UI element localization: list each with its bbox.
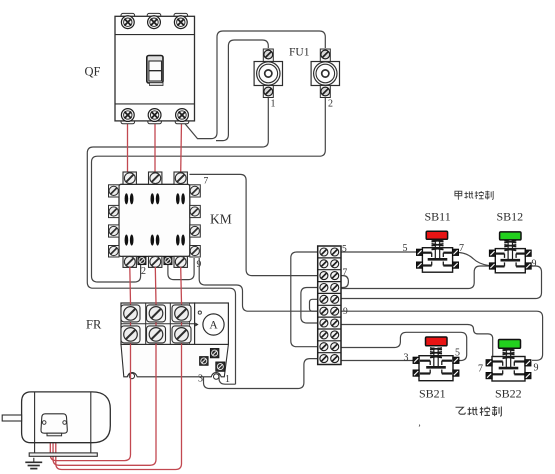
circuit breaker QF [115, 13, 195, 123]
wire net2: FU1-2 bottom to KM coil terminal 2 [92, 92, 326, 282]
wire SB11 terminal 7 to SB12 lower-left [459, 253, 490, 266]
cap of SB11 (stop, red) [426, 231, 447, 239]
wire strip jumper row3-row4 right (net7) [341, 276, 348, 288]
svg-text:3: 3 [404, 353, 409, 364]
wire strip row7 to SB22 terminal 7 (net7) [341, 325, 493, 360]
wire red KM-FR-motor phase1 [50, 267, 130, 461]
wire FR aux 1 stub [219, 371, 236, 384]
wire strip row4 to SB12 lower-left (net7) [341, 266, 490, 289]
label jiadi-kongzhi (site A control) [455, 191, 493, 200]
fuse FU1-1 [254, 49, 282, 98]
svg-text:SB22: SB22 [495, 387, 522, 401]
fuse FU1-2 [311, 49, 339, 98]
wire net7: KM aux 7 to strip row3 [190, 174, 318, 275]
pushbutton SB21 (stop, red) [413, 337, 459, 381]
wire strip jumper row4-row7 (net7) [301, 288, 318, 324]
wire red QF-KM phase2 [154, 121, 156, 173]
svg-text:5: 5 [342, 245, 347, 255]
wire red QF-KM phase1 [127, 121, 129, 173]
wire strip row6 to SB22 terminal 9 (net9) [341, 311, 543, 360]
wire FU1-1 top to QF tap junction [216, 40, 268, 141]
svg-text:9: 9 [534, 363, 539, 374]
svg-text:7: 7 [459, 243, 464, 254]
svg-text:9: 9 [197, 260, 202, 270]
FR right housing with ammeter [195, 303, 229, 344]
svg-text:’: ’ [418, 423, 421, 433]
label yidi-kongzhi (site B control) [456, 406, 502, 416]
wire strip row5 to SB12 terminal 9 (net9) [341, 266, 542, 299]
svg-text:5: 5 [403, 243, 408, 254]
contactor KM [109, 172, 201, 267]
svg-text:7: 7 [204, 177, 209, 187]
svg-text:KM: KM [210, 212, 232, 227]
wire net3: FR aux 3 to strip row10 [204, 359, 318, 389]
svg-text:3: 3 [198, 374, 203, 385]
svg-text:SB21: SB21 [419, 387, 446, 401]
wire strip jumper row1-row9 (net5) [291, 252, 318, 347]
KM right aux terminals (7 top, 9 bottom) [190, 185, 201, 257]
KM top terminal L1 [123, 172, 136, 184]
cap of SB22 (start, green) [499, 340, 521, 349]
wire red QF-KM phase3 [180, 121, 183, 173]
KM left aux terminals [109, 185, 120, 257]
wire strip row9 to SB21 terminal 5 (net5) [341, 332, 467, 360]
svg-text:QF: QF [85, 65, 101, 79]
ground symbol [25, 458, 42, 469]
svg-text:7: 7 [343, 268, 348, 278]
svg-text:9: 9 [343, 307, 348, 317]
wire red KM-FR-motor phase2 [53, 267, 156, 466]
KM top terminal L3 [174, 172, 187, 184]
KM contact slots [125, 193, 185, 246]
svg-text:7: 7 [478, 364, 483, 375]
thermal relay FR [50, 267, 228, 470]
wire strip row10 to SB21 terminal 3 (net3) [341, 360, 413, 362]
KM coil terminal b [164, 256, 172, 264]
FR aux terminal mid [210, 348, 219, 358]
wire strip jumper row5-row6 (net9) [310, 299, 318, 311]
svg-text:SB11: SB11 [425, 210, 451, 224]
svg-text:1: 1 [225, 374, 230, 385]
svg-text:2: 2 [141, 266, 146, 277]
svg-text:2: 2 [328, 99, 333, 110]
motor M body [2, 392, 110, 456]
KM bottom terminal T3 [174, 256, 187, 267]
KM coil terminal 2 [138, 256, 146, 264]
cap of SB12 (start, green) [500, 232, 521, 240]
svg-text:SB12: SB12 [497, 210, 524, 224]
terminal strip XT [318, 246, 341, 365]
toggle handle of QF [147, 56, 163, 84]
motor shaft [2, 415, 21, 421]
wire QF pole3 to FU1-2 top (net L3 tap) [184, 31, 325, 139]
FR terminal block [121, 303, 195, 344]
wire red KM-FR-motor phase3 [56, 267, 182, 470]
pushbutton SB11 (stop, red) [416, 231, 458, 272]
svg-text:9: 9 [532, 259, 537, 270]
svg-text:5: 5 [455, 348, 460, 359]
svg-text:1: 1 [271, 99, 276, 110]
FR aux terminal 1 [216, 362, 225, 372]
FR mounting feet [129, 373, 134, 378]
cap of SB21 (stop, red) [426, 337, 448, 346]
svg-text:A: A [209, 320, 218, 332]
FR lower housing trapezoid [121, 344, 228, 376]
wire net9: KM aux 9 to strip row6 [199, 258, 318, 311]
wire KM coil jumper to aux 9 [168, 258, 194, 280]
KM top terminal L2 [149, 172, 162, 184]
KM bottom terminal T1 [123, 256, 136, 267]
KM bottom terminal T2 [149, 256, 162, 267]
wire strip row1 to SB11 terminal 5 [341, 251, 417, 253]
motor base plate [29, 453, 97, 456]
wire net1: FU1-1 bottom to FR aux terminal 1 [87, 92, 268, 384]
pushbutton SB22 (start, green) [486, 340, 531, 382]
svg-text:FR: FR [86, 318, 102, 332]
svg-text:FU1: FU1 [289, 47, 310, 59]
FR aux terminal 3 [200, 357, 209, 366]
motor junction box [41, 414, 67, 433]
pushbutton SB12 (start, green) [489, 232, 531, 273]
